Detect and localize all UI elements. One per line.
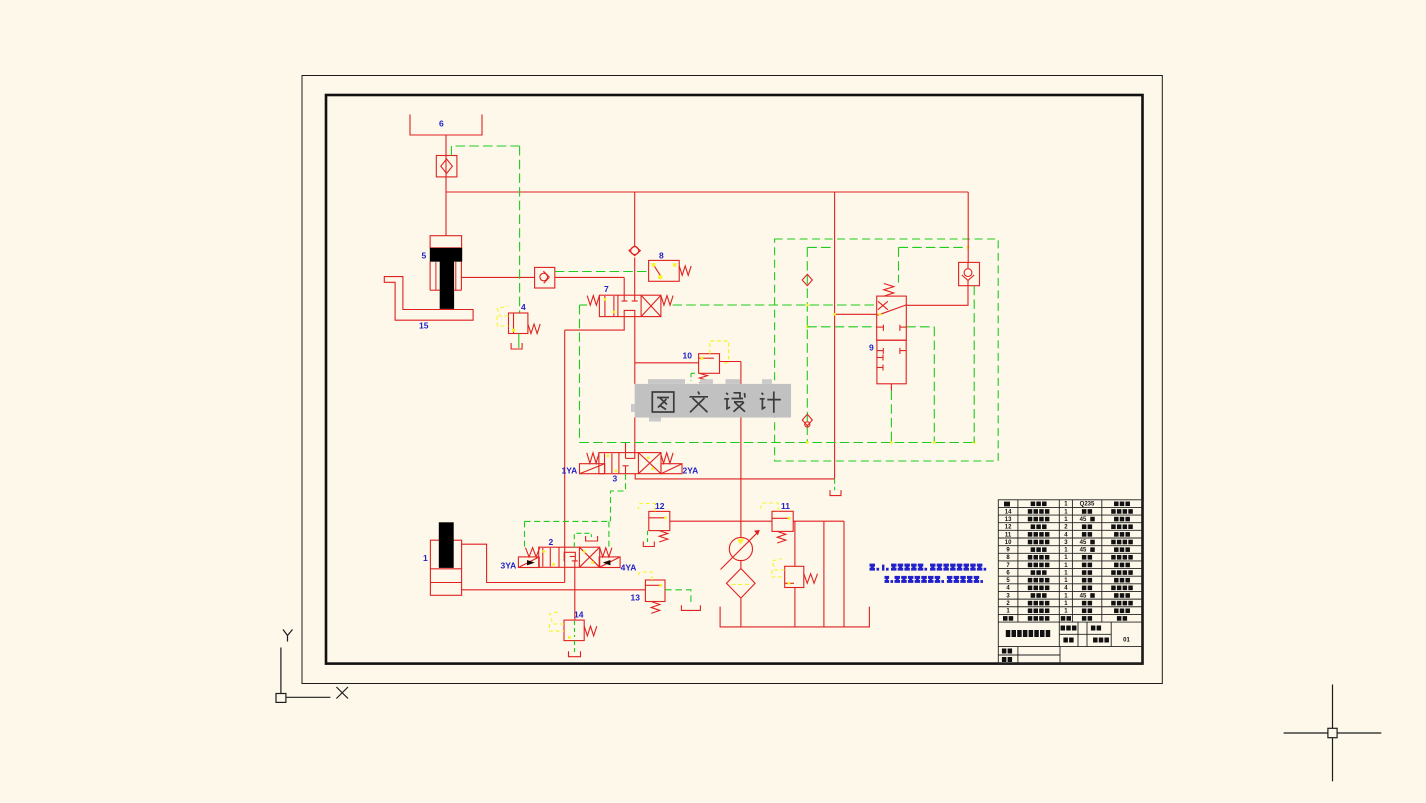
valve14 drain green xyxy=(574,641,576,652)
valve2 pilot greens xyxy=(524,521,526,549)
valve V9 lower section xyxy=(877,340,906,384)
wire check valve to valve7 port xyxy=(555,276,624,278)
svg-text:45: 45 xyxy=(1080,593,1087,599)
tank under valve4 xyxy=(511,343,522,349)
valve2 T-port down to valve14 xyxy=(574,567,576,620)
wire valve10 to pump line xyxy=(720,361,741,363)
tank T6 xyxy=(410,115,482,136)
cylinder C5 rod black xyxy=(440,262,454,309)
valve V11 reducing xyxy=(772,511,793,531)
valve V13 sequence xyxy=(645,580,665,602)
pilot check valve diamond xyxy=(629,246,640,256)
svg-text:4: 4 xyxy=(521,302,526,312)
cylinder C5 piston black xyxy=(430,248,462,262)
svg-text:11: 11 xyxy=(781,501,790,511)
wire into valve9 from node D xyxy=(835,313,877,315)
svg-text:14: 14 xyxy=(1005,509,1012,515)
svg-text:14: 14 xyxy=(574,610,584,620)
filter F1 with diamond xyxy=(436,156,457,177)
pilot green inner vertical left xyxy=(806,247,808,442)
crosshair cursor xyxy=(1284,685,1382,782)
svg-text:8: 8 xyxy=(659,250,664,260)
pilot green mid horizontal left xyxy=(807,326,876,328)
valve2 center drain green xyxy=(574,533,591,547)
svg-text:2YA: 2YA xyxy=(683,466,699,476)
wire cylinder1 upper port xyxy=(462,544,565,582)
pilot green outer rectangle xyxy=(775,239,999,461)
cylinder C1 body xyxy=(430,540,461,595)
notes blue text xyxy=(870,564,876,567)
svg-text:4YA: 4YA xyxy=(621,563,637,573)
svg-text:11: 11 xyxy=(1005,532,1012,538)
wire through valve11 xyxy=(741,520,772,522)
valve V8 pressure switch xyxy=(649,260,680,281)
valve V7 directional 3-position xyxy=(587,296,599,306)
svg-text:10: 10 xyxy=(1005,540,1012,546)
relief valve V4 xyxy=(509,313,528,334)
wire diamond to valve 7 xyxy=(634,258,636,302)
reservoir tank xyxy=(720,607,869,627)
wire vertical through lower reducing valve xyxy=(794,521,796,566)
valve V14 relief xyxy=(564,620,584,641)
svg-text:01: 01 xyxy=(1123,638,1130,644)
pilot green inner top to node D xyxy=(807,246,834,248)
valve V2 directional xyxy=(526,548,540,557)
svg-text:2: 2 xyxy=(549,537,554,547)
svg-text:12: 12 xyxy=(655,501,665,511)
check valve CV1 xyxy=(535,267,555,288)
pilot green to valve9 spring xyxy=(898,247,900,282)
pilot check diamond upper on green xyxy=(802,274,812,285)
cylinder C5 cap xyxy=(430,236,462,248)
parts list table xyxy=(998,500,1142,664)
valve13 green to tank xyxy=(665,590,691,605)
svg-text:45: 45 xyxy=(1080,517,1087,523)
svg-text:10: 10 xyxy=(683,351,693,361)
valve9 drain stub xyxy=(890,384,892,391)
wire pump to suction filter xyxy=(740,561,742,569)
bracket 15 fixture xyxy=(384,277,473,321)
UCS icon Y axis xyxy=(276,630,348,703)
wire tank to filter xyxy=(445,135,447,156)
pilot green mid horizontal right xyxy=(906,326,934,328)
pump P1 xyxy=(729,537,752,560)
valve4 drain to tank xyxy=(518,334,520,349)
wire filter down to main line xyxy=(445,177,447,192)
outer border frame thin xyxy=(302,76,1162,684)
svg-text:1: 1 xyxy=(423,553,428,563)
valve3 drain green to valve2 pilots xyxy=(611,474,626,522)
wire valve9 out to check valve CV2 xyxy=(906,286,968,306)
svg-text:1YA: 1YA xyxy=(562,466,578,476)
wire valve7 B-port down to valve3 xyxy=(634,317,636,384)
valve V10 sequence xyxy=(699,354,720,374)
svg-text:45: 45 xyxy=(1080,548,1087,554)
wire CV2 up to main line xyxy=(967,192,969,262)
main pressure line top horizontal xyxy=(446,191,968,193)
wire filter to reservoir xyxy=(740,598,742,627)
pilot green top right segment xyxy=(899,246,969,248)
pilot green right of valve7 to valve9 xyxy=(673,304,877,306)
svg-text:13: 13 xyxy=(631,593,641,603)
wire down to cylinder 5 xyxy=(445,192,447,236)
return lines into reservoir xyxy=(823,521,825,627)
svg-text:5: 5 xyxy=(422,251,427,261)
watermark ghost fragments xyxy=(648,379,685,384)
tank right of valve13 xyxy=(681,605,700,610)
tank under node D xyxy=(830,490,841,496)
mini tank above valve2 xyxy=(586,536,598,541)
check valve CV2 xyxy=(959,262,980,285)
green stub under node D xyxy=(834,479,836,490)
pilot green left of valve7 xyxy=(580,304,588,306)
svg-text:Q235: Q235 xyxy=(1080,502,1095,508)
pilot green from filter to valve4 xyxy=(451,146,519,156)
watermark text tu wen she ji xyxy=(652,392,781,413)
suction filter diamond xyxy=(727,569,756,599)
svg-text:6: 6 xyxy=(439,119,444,129)
svg-text:15: 15 xyxy=(419,321,429,331)
svg-text:3: 3 xyxy=(613,474,618,484)
valve3 top port A stub xyxy=(625,443,627,459)
valve V3 directional xyxy=(587,453,599,463)
wire cylinder1 lower port to valve13 xyxy=(462,589,646,591)
wire long vertical node D xyxy=(834,192,836,479)
wire branch to valve 10 xyxy=(635,362,699,364)
svg-text:13: 13 xyxy=(1005,517,1012,523)
wire cylinder5 to check valve xyxy=(461,276,534,278)
svg-text:3YA: 3YA xyxy=(501,561,517,571)
tank under valve14 xyxy=(569,651,581,657)
pilot green right vertical xyxy=(973,286,975,443)
wire valve12 to pump line xyxy=(670,520,741,522)
inner border frame thick xyxy=(326,95,1143,664)
valve V12 reducing xyxy=(649,511,670,530)
valve VR lower reducing xyxy=(785,566,804,587)
cylinder C5 barrel walls xyxy=(429,262,431,291)
tank under valve12 xyxy=(643,542,654,547)
pilot check diamond lower on green xyxy=(802,414,812,425)
valve V9 unloading relief xyxy=(884,284,894,297)
wire valve7 A-port down-left long vertical xyxy=(565,317,625,331)
svg-text:12: 12 xyxy=(1005,525,1012,531)
cylinder C1 rod black xyxy=(439,522,454,568)
wire main line down at node B xyxy=(634,192,636,246)
svg-text:9: 9 xyxy=(869,343,874,353)
svg-text:45: 45 xyxy=(1080,540,1087,546)
svg-text:7: 7 xyxy=(604,284,609,294)
valve3 bottom line to node xyxy=(635,474,834,479)
table text xyxy=(1005,502,1131,644)
pilot green bottom collector line xyxy=(580,442,975,444)
watermark box xyxy=(635,384,791,418)
pilot line green to valve 8 xyxy=(555,271,649,273)
pilot green left vertical down xyxy=(579,305,581,443)
valve12 drain green xyxy=(647,531,649,542)
